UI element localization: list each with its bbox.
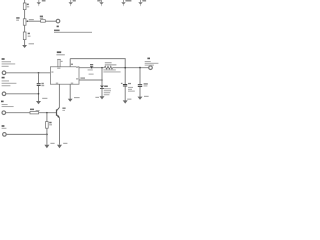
ground arrow R5: [44, 145, 49, 148]
label J4: [54, 30, 60, 32]
wire J3 to R4: [6, 112, 30, 114]
ground arrow IC1: [68, 99, 73, 102]
wire R5 column: [46, 113, 48, 122]
label R6 line1: [105, 62, 112, 63]
resistor R3: [41, 20, 46, 23]
connector circle J4: [56, 19, 60, 23]
label R1: [27, 4, 29, 6]
junction node base/R5: [46, 112, 48, 114]
wire C1 column: [38, 73, 40, 83]
diode D1: [100, 86, 104, 89]
value IC1: [56, 54, 64, 55]
power flag arrow P3: [99, 0, 103, 6]
ground text left column: [29, 43, 34, 44]
resistor R4: [30, 112, 39, 114]
wire D1 to ground: [101, 89, 103, 97]
power flag arrow P4: [121, 0, 125, 6]
ground arrow Q1 emitter: [57, 145, 62, 148]
wire J1 to IC: [6, 72, 51, 74]
label R3: [40, 16, 43, 18]
wire C1 to junction: [38, 86, 40, 101]
note J2 line3: [2, 85, 11, 86]
ground text C4: [144, 96, 149, 97]
resistor R5: [46, 122, 49, 129]
note J1 line2: [2, 63, 16, 64]
resistor R1: [23, 3, 26, 10]
pin number left pin: [51, 71, 53, 72]
label IC1: [57, 51, 61, 53]
wire R4 to Q1 base: [39, 112, 57, 114]
note text J4: [54, 32, 92, 33]
net label for P5: [142, 0, 146, 2]
wire C3 to ground: [124, 86, 126, 100]
zigzag resistor R6: [104, 66, 112, 69]
label R6 line2: [105, 64, 117, 65]
capacitor C1: [37, 83, 41, 84]
label D1: [104, 86, 108, 88]
resistor R2: [23, 32, 26, 40]
connector circle J6: [149, 66, 153, 70]
IC1 top pin to supply wire: [69, 59, 71, 67]
value C4 right line2: [144, 85, 148, 86]
note C3 line2: [128, 89, 132, 90]
wire Q1 emitter down: [59, 118, 61, 145]
value C1: [41, 85, 44, 86]
label R5: [49, 122, 51, 124]
ground text C1: [42, 98, 47, 99]
junction node C3 top: [124, 67, 126, 69]
value RV1: [16, 20, 19, 21]
label C4 right line1: [144, 83, 148, 84]
wire R1 to RV1: [24, 10, 26, 19]
pin text J4: [57, 26, 59, 28]
ground text Q1: [63, 143, 67, 144]
note J6 line2: [145, 63, 159, 64]
note D1 line2: [104, 90, 111, 91]
ground text D1: [95, 97, 99, 98]
pin number top pin: [71, 64, 73, 65]
potentiometer RV1: [23, 19, 26, 25]
wiper arrow RV1: [26, 20, 28, 22]
ground text IC1: [74, 97, 80, 98]
value R3: [40, 18, 43, 19]
pin number right pin 2: [76, 78, 78, 79]
ground text C3: [127, 99, 131, 100]
wire C4 to ground: [139, 87, 141, 97]
note C3 line1: [128, 87, 133, 88]
pin numbers top: [61, 61, 63, 62]
label J1: [2, 58, 5, 60]
connector circle J5: [3, 133, 7, 137]
connector circle J3: [2, 111, 6, 115]
label C1: [41, 83, 43, 84]
note R6 line1: [103, 69, 115, 70]
pin number right pin OUT: [76, 67, 78, 68]
value R1: [27, 6, 29, 7]
connector circle J1: [2, 71, 6, 75]
net label for P3: [97, 0, 100, 2]
ground arrow D1: [100, 96, 105, 99]
wire J2 to node: [6, 93, 39, 95]
note J5 line1: [2, 128, 7, 129]
wire wiper to R3: [28, 20, 40, 22]
pin numbers bottom: [56, 83, 58, 84]
note J6 line3: [145, 65, 154, 66]
label J6: [147, 58, 150, 60]
note D1 line3: [104, 92, 110, 93]
label R2: [28, 33, 30, 35]
ground arrow C1: [36, 101, 41, 104]
label Q1: [62, 108, 65, 109]
IC1 right pin2 wire: [79, 79, 102, 81]
value R2: [28, 36, 31, 37]
value R4: [36, 110, 40, 111]
junction node D1 top: [101, 67, 103, 69]
power flag arrow P1: [37, 0, 41, 6]
junction node at C1 top: [38, 72, 40, 74]
ground arrow C4: [138, 97, 143, 100]
note R6 line2: [103, 71, 120, 72]
label J5: [2, 125, 5, 127]
wiper net text: [29, 19, 34, 20]
note J3 line2: [2, 106, 14, 107]
wire Q1 collector up to IC: [58, 84, 60, 107]
note J2 line2: [2, 83, 17, 84]
connector circle J2: [2, 92, 6, 96]
note J1 line3: [2, 66, 9, 67]
capacitor C4: [138, 84, 142, 85]
pin name text above wire: [80, 77, 85, 78]
net label for P2: [73, 0, 76, 2]
value R5: [49, 124, 52, 125]
note J2 line1: [2, 80, 9, 81]
value C2 line2: [89, 74, 94, 75]
ground text R5: [50, 143, 54, 144]
wire left column top: [24, 0, 26, 3]
wire R2 to ground: [24, 40, 26, 46]
label C3: [128, 83, 131, 84]
transistor Q1: [57, 107, 60, 117]
net label for P1: [42, 0, 46, 2]
junction node wire2: [101, 79, 103, 81]
ground arrow C3: [123, 100, 128, 103]
note D1 line1: [104, 88, 111, 89]
plus mark C3: [121, 83, 123, 84]
note J6 line1: [145, 61, 151, 62]
label R4: [30, 109, 34, 111]
ground arrow left column: [22, 45, 27, 48]
wire C3 column: [124, 68, 126, 85]
note J1 line1: [2, 61, 11, 62]
power flag arrow P2: [69, 0, 73, 6]
wire R3 to J4: [45, 20, 56, 22]
label J2: [2, 77, 5, 79]
capacitor C3: [123, 83, 127, 86]
note C3 line3: [128, 91, 135, 92]
op-amp IC1 box: [50, 67, 79, 84]
capacitor C2: [90, 64, 93, 68]
output rail wire: [79, 67, 104, 69]
junction node C2: [91, 67, 93, 69]
junction node at J2 wire: [38, 93, 40, 95]
IC1 top tied pins: [57, 59, 60, 67]
wire RV1 to R2: [24, 25, 26, 32]
note J3 line1: [2, 104, 8, 105]
wire C4 top: [139, 68, 141, 85]
emitter arrowhead Q1: [57, 115, 60, 118]
value C2 line1: [88, 69, 93, 70]
junction node J5 wire: [46, 134, 48, 136]
wire D1 column: [101, 68, 103, 86]
junction node C4 top: [139, 67, 141, 69]
power flag arrow P5: [138, 0, 142, 6]
note D1 line4: [104, 94, 110, 95]
wire R5 to ground: [46, 128, 48, 145]
IC1 bottom pin2 wire to ground: [69, 84, 71, 99]
wire J5 to R5 column: [6, 133, 47, 135]
net label for P4: [125, 0, 131, 2]
label J3: [1, 101, 4, 103]
wire top rail: [70, 59, 125, 68]
label RV1: [16, 17, 19, 19]
